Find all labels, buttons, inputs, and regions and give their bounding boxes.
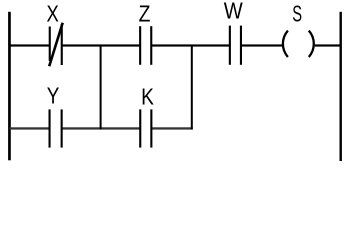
svg-text:K: K (141, 84, 154, 110)
svg-text:Z: Z (139, 1, 151, 27)
svg-text:Y: Y (47, 83, 60, 109)
svg-text:W: W (224, 0, 243, 24)
svg-text:X: X (46, 1, 58, 27)
svg-text:S: S (292, 1, 302, 27)
